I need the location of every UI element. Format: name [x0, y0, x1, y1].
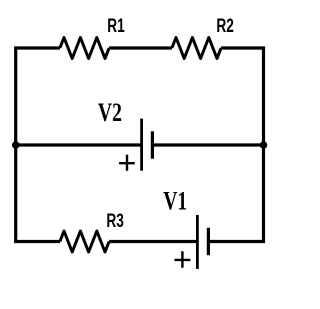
wire middle rail left of V2 — [16, 143, 141, 146]
svg-text:V1: V1 — [163, 186, 187, 215]
wire right loop (top-right rail, right wire, bottom-right rail) — [208, 48, 263, 242]
wire left loop (top-left rail, left wire, bottom-left rail) — [16, 48, 60, 242]
node right junction dot — [260, 141, 268, 149]
resistor R2 — [172, 38, 221, 59]
svg-text:R2: R2 — [216, 15, 233, 37]
battery V1 long plate — [196, 215, 199, 269]
resistor R3 — [60, 231, 109, 252]
battery V2 short plate — [151, 131, 154, 158]
wire middle rail right of V2 — [153, 143, 264, 146]
battery V2 plus sign — [119, 155, 135, 171]
svg-text:V2: V2 — [98, 97, 122, 126]
node left junction dot — [12, 141, 20, 149]
battery V1 plus sign — [175, 251, 191, 268]
battery V1 short plate — [207, 228, 210, 255]
resistor R1 — [60, 38, 109, 59]
svg-text:R3: R3 — [106, 210, 123, 232]
wire bottom middle segment — [109, 240, 197, 243]
svg-text:R1: R1 — [107, 15, 124, 37]
wire top middle segment — [109, 46, 172, 49]
battery V2 long plate — [140, 119, 143, 171]
